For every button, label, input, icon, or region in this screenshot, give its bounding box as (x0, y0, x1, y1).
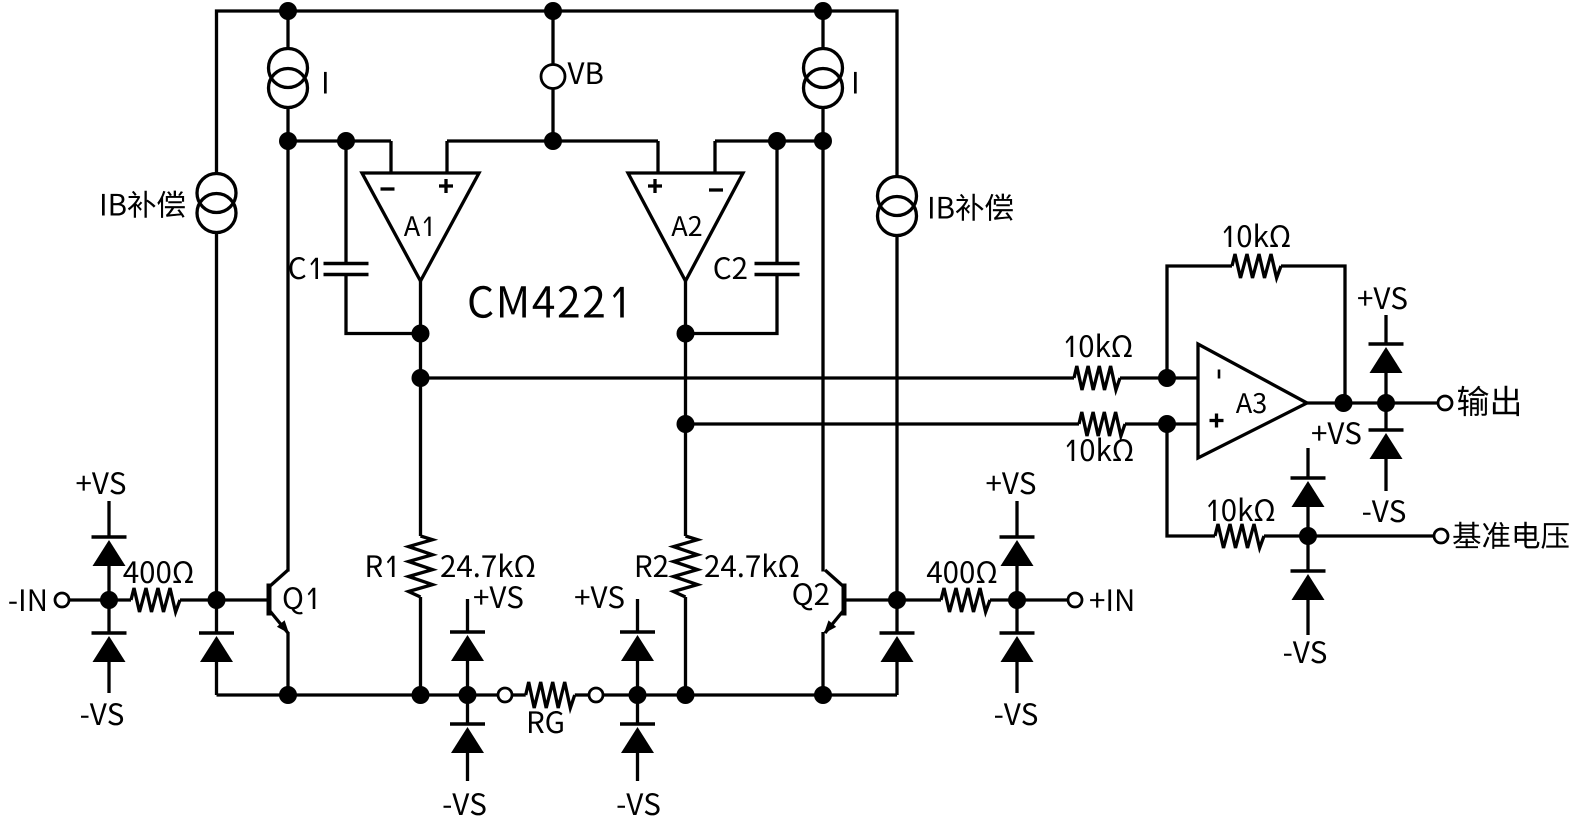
diode reference clamp upper (1291, 476, 1326, 480)
diode center-left below rail (450, 722, 485, 726)
diode output clamp lower (1369, 428, 1404, 432)
wire diode to +IN node (1015, 566, 1018, 600)
wire output line to lower diode (1384, 403, 1387, 430)
wire R2 bottom (684, 597, 687, 695)
label A3 (1236, 393, 1266, 414)
wire rail to lower diode (center-right) (636, 695, 639, 724)
resistor R2 (674, 536, 698, 597)
wire lower diode to -VS (right input) (1015, 662, 1018, 693)
label I (right) (854, 72, 857, 94)
node junction R2 rail (677, 686, 695, 704)
wire IB-right down (895, 236, 898, 601)
node junction A2-C2 (677, 325, 695, 343)
diode reference clamp lower (1291, 569, 1326, 573)
label +IN (1090, 589, 1132, 611)
resistor 10k lower input (1079, 412, 1125, 436)
label VB (568, 62, 603, 84)
label +VS reference clamp (1312, 422, 1361, 444)
wire RG right lead (575, 693, 590, 696)
node junction rail2-right (814, 132, 832, 150)
label 输出 (1458, 386, 1519, 416)
label 400Ω left (123, 561, 192, 583)
wire A3 feedback loop (1167, 266, 1232, 378)
label C1 (290, 257, 319, 279)
wire bias rail right segment (715, 139, 823, 142)
resistor R1 (409, 536, 433, 597)
wire +IN node to lower diode (1015, 600, 1018, 633)
label A3 plus (1210, 419, 1224, 422)
node junction center-right rail (629, 686, 647, 704)
wire 400Ω to +IN clamp (990, 598, 1017, 601)
node junction rail2-VB (544, 132, 562, 150)
wire IB-right node to diode (895, 600, 898, 633)
terminal +IN (1068, 593, 1082, 607)
wire VB top (551, 11, 554, 65)
node junction Q1 base (208, 591, 226, 609)
wire A1 output down (419, 281, 422, 536)
wire A3 output (1307, 401, 1438, 404)
label Q2 (793, 583, 828, 610)
node junction top-left (279, 2, 297, 20)
capacitor C1 (324, 262, 369, 265)
label +VS right input clamp (987, 472, 1036, 494)
current source IB compensation (right) (878, 177, 917, 216)
wire A2 inverting input drop (713, 141, 716, 174)
current source IB compensation (left) (197, 174, 236, 213)
wire lower diode to -VS (center-left) (466, 753, 469, 781)
wire +VS to diode (output clamp) (1384, 315, 1387, 344)
wire top rail with left/right rail drops (217, 11, 898, 177)
label IB补偿 (left) (102, 191, 185, 218)
label R2 (637, 555, 668, 577)
wire Q1 collector up (286, 141, 289, 572)
wire bias rail middle segment (447, 139, 658, 142)
wire A1 output to 10k (upper) (421, 376, 1075, 379)
wire +VS down (center-left) (466, 599, 469, 632)
wire Q2 emitter down (821, 632, 824, 695)
label -VS reference clamp (1284, 641, 1326, 663)
op-amp A1 triangle (362, 173, 479, 281)
wire diode to ref line (1306, 507, 1309, 536)
label +VS output clamp (1358, 287, 1407, 309)
resistor 10k upper input (1074, 366, 1120, 390)
wire IB-left down (215, 233, 218, 601)
terminal -IN (55, 593, 69, 607)
wire +VS down (left input) (107, 501, 110, 537)
diode center-left above rail (450, 630, 485, 634)
label -VS right input clamp (995, 703, 1037, 725)
wire Q2 collector up (821, 141, 824, 572)
terminal RG left (498, 688, 512, 702)
terminal reference (1434, 529, 1448, 543)
capacitor C2 (755, 262, 800, 265)
label 400Ω right (927, 561, 996, 583)
label 10kΩ feedback (1224, 224, 1290, 248)
resistor 10k reference (1215, 524, 1264, 548)
wire R1 bottom (419, 597, 422, 695)
label 10kΩ upper input (1066, 334, 1132, 358)
diode output clamp upper (1369, 342, 1404, 346)
node junction A2 output to difference amp (677, 415, 695, 433)
label Q1 (284, 587, 316, 614)
label A1 plus (439, 184, 453, 187)
wire +VS down (right input) (1015, 501, 1018, 537)
label CM4221 (470, 286, 624, 318)
wire I-left to rail2 (286, 108, 289, 142)
label -VS center-left clamp (444, 793, 486, 815)
diode right rail (880, 631, 915, 635)
wire -IN to clamp node (69, 598, 131, 601)
wire A3 +input down to ref resistor (1167, 424, 1215, 536)
diode right input clamp lower (1000, 631, 1035, 635)
terminal VB (541, 65, 565, 89)
wire A3 feedback to output (1281, 266, 1345, 403)
node junction A3 inverting input (1158, 369, 1176, 387)
label IB补偿 (right) (930, 194, 1013, 221)
wire bias rail left segment (288, 139, 391, 142)
wire ref resistor to terminal (1264, 534, 1434, 537)
wire I-right to rail2 (821, 108, 824, 142)
label A2 plus (648, 184, 662, 187)
node junction output-clamp (1377, 394, 1395, 412)
terminal output (1438, 396, 1452, 410)
wire VB to rail2 (551, 88, 554, 141)
node junction rail2-C2 (768, 132, 786, 150)
label A1 minus (381, 187, 395, 190)
wire IB-left node to diode (215, 600, 218, 633)
diode center-right above rail (620, 630, 655, 634)
label 10kΩ lower input (1067, 438, 1133, 462)
wire -IN node to lower diode (107, 600, 110, 633)
label C2 (715, 257, 747, 279)
node junction -IN clamp (100, 591, 118, 609)
wire clamp to +IN terminal (1017, 598, 1068, 601)
wire A1 non-inverting input drop (445, 141, 448, 174)
wire RG left lead (512, 693, 526, 696)
diode left input clamp lower (92, 631, 127, 635)
diode left input clamp upper (92, 535, 127, 539)
node junction R1 rail (412, 686, 430, 704)
node junction A1 output to difference amp (412, 369, 430, 387)
node junction top-VB (544, 2, 562, 20)
node junction rail2-left (279, 132, 297, 150)
wire I-left top (286, 11, 289, 49)
label R1 (367, 555, 394, 577)
node junction A3 non-inverting input (1158, 415, 1176, 433)
label -IN (9, 589, 45, 611)
label RG (529, 711, 563, 733)
resistor 400Ω left (131, 588, 180, 612)
label A3 minus tick (1218, 370, 1221, 379)
wire Q2 base node to 400Ω (897, 598, 941, 601)
wire ref line to lower diode (1306, 536, 1309, 571)
wire C2 bottom to A2 output (686, 276, 778, 334)
label +VS center-left clamp (474, 586, 522, 608)
wire A2 output down (684, 281, 687, 536)
label 10kΩ reference (1208, 498, 1274, 522)
wire C2 top (775, 141, 778, 262)
wire 10k lower to A3 (1125, 422, 1198, 425)
node junction output-feedback (1335, 394, 1353, 412)
label A2 (671, 216, 701, 236)
label A2 minus (709, 188, 723, 191)
wire lower diode to -VS (ref clamp) (1306, 600, 1309, 635)
node junction rail2-C1 (337, 132, 355, 150)
wire +VS to diode (ref clamp) (1306, 448, 1309, 478)
node junction reference clamp (1299, 527, 1317, 545)
wire diode to output line (1384, 373, 1387, 403)
wire Q1 emitter down (286, 632, 289, 695)
node junction center-left rail (459, 686, 477, 704)
wire Q1 base (217, 598, 267, 601)
terminal RG right (589, 688, 603, 702)
wire diode to rail (center-left) (466, 661, 469, 695)
wire I-right top (821, 11, 824, 49)
label I (left) (324, 72, 327, 94)
label -VS center-right clamp (618, 793, 660, 815)
wire bottom rail right (603, 693, 898, 696)
wire A1 inverting input drop (389, 141, 392, 174)
wire lower diode to -VS (center-right) (636, 753, 639, 781)
current source I (left) (269, 49, 308, 88)
wire 10k upper to A3 (1120, 376, 1198, 379)
wire A2 non-inverting input drop (656, 141, 659, 174)
diode left rail (199, 631, 234, 635)
transistor Q1 (267, 584, 272, 616)
wire A2 output to 10k (lower) (686, 422, 1080, 425)
wire rail to lower diode (center-left) (466, 695, 469, 724)
resistor 400Ω right (941, 588, 990, 612)
diode center-right below rail (620, 722, 655, 726)
node junction A1-C1 (412, 325, 430, 343)
label 基准电压 (1453, 522, 1569, 549)
wire 400Ω to Q1 base node (180, 598, 217, 601)
wire bottom rail left (217, 693, 499, 696)
label R2 value 24.7kΩ (705, 554, 798, 578)
wire C1 top (344, 141, 347, 262)
wire Q2 base (847, 598, 898, 601)
label +VS center-right clamp (575, 586, 624, 608)
label A1 (404, 216, 431, 236)
diode right input clamp upper (1000, 535, 1035, 539)
current source I (right) (804, 49, 843, 88)
label -VS output clamp (1363, 500, 1405, 522)
resistor 10k feedback (1232, 254, 1281, 278)
wire diode to bottom rail (left) (215, 662, 218, 695)
node junction Q1 emitter rail (279, 686, 297, 704)
wire lower diode to -VS (left input) (107, 662, 110, 693)
label R1 value 24.7kΩ (441, 554, 534, 578)
op-amp A2 triangle (628, 173, 743, 281)
label +VS left input clamp (77, 472, 126, 494)
wire +VS down (center-right) (636, 599, 639, 632)
wire diode to -IN node (107, 566, 110, 600)
wire diode to rail (center-right) (636, 661, 639, 695)
node junction top-right (814, 2, 832, 20)
label -VS left input clamp (81, 703, 123, 725)
wire C1 bottom to A1 output (346, 276, 421, 334)
transistor Q2 (842, 584, 847, 616)
node junction Q2 base (888, 591, 906, 609)
resistor RG (526, 682, 575, 708)
op-amp A3 triangle (1198, 344, 1307, 458)
wire lower diode to -VS (output clamp) (1384, 459, 1387, 491)
node junction +IN clamp (1008, 591, 1026, 609)
wire diode to bottom rail (right) (895, 662, 898, 695)
node junction Q2 emitter rail (814, 686, 832, 704)
